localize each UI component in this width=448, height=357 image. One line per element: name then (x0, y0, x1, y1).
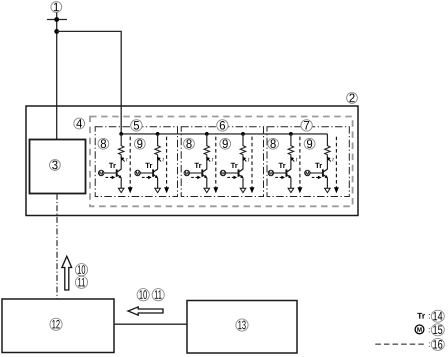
label 11 (152, 289, 164, 301)
legend motor symbol (415, 325, 424, 334)
label 10 (137, 289, 149, 301)
flow arrow (dashed) ch2 (166, 137, 168, 189)
wire resistor to transistor ch2 (157, 156, 159, 170)
base signal dashed arrow ch1 (106, 176, 113, 178)
label Tr ch2 (145, 163, 152, 168)
emitter wire ch3 (206, 178, 208, 188)
wire resistor to transistor ch4 (242, 156, 244, 170)
driver stage box 6 (dash-dot) (181, 127, 263, 197)
wire resistor to transistor ch1 (120, 156, 122, 170)
wire rail to resistor ch6 (326, 134, 328, 146)
unit U3 block (30, 140, 86, 194)
base wire ch4 (226, 172, 239, 174)
current arrow ch1 (122, 159, 124, 162)
label 8 ch3 (184, 138, 195, 149)
base signal dashed arrow ch2 (142, 176, 149, 178)
resistor R1 (119, 146, 124, 156)
transistor Q4 body (238, 169, 240, 176)
junction dot ch1 (119, 132, 123, 136)
resistor R4 (240, 146, 245, 156)
current arrow ch6 (329, 159, 331, 162)
current arrow ch3 (208, 159, 210, 162)
flow arrow (dashed) ch4 (251, 137, 253, 189)
label 11 (75, 276, 87, 288)
base signal dashed arrow ch3 (191, 176, 198, 178)
base wire ch3 (190, 172, 203, 174)
group box 4 (dashed) (90, 117, 353, 207)
terminal tick at node 1 (47, 19, 67, 21)
label 3 (50, 160, 61, 171)
transistor Q3 body (201, 169, 203, 176)
wire rail to resistor ch2 (157, 134, 159, 146)
emitter wire ch6 (326, 178, 328, 188)
label 9 ch2 (134, 138, 145, 149)
label 12 (50, 318, 62, 330)
label 13 (236, 319, 248, 331)
node 1 label (51, 2, 62, 13)
junction dot ch3 (205, 132, 209, 136)
wire rail to resistor ch5 (290, 134, 292, 146)
base signal dashed arrow ch4 (227, 176, 234, 178)
transistor Q6 body (322, 169, 324, 176)
motor M1 (99, 170, 104, 175)
junction dot ch2 (156, 132, 160, 136)
wire resistor to transistor ch3 (206, 156, 208, 170)
label 9 ch4 (220, 138, 231, 149)
motor M4 (220, 170, 225, 175)
signal arrow up (outline) (62, 256, 72, 290)
ground ch1 (118, 188, 124, 192)
base wire ch6 (310, 172, 323, 174)
junction dot (54, 29, 59, 34)
label Tr ch1 (109, 163, 116, 168)
label 14 (431, 310, 444, 322)
label 4 (74, 118, 85, 129)
resistor R2 (155, 146, 160, 156)
label 15 (431, 324, 444, 336)
label Tr ch6 (315, 163, 322, 168)
label 2 (347, 93, 358, 104)
unit U2 outer box (26, 106, 358, 216)
junction dot ch5 (289, 132, 293, 136)
transistor Q5 body (285, 169, 287, 176)
legend dashed wire (375, 343, 426, 345)
junction dot (54, 17, 59, 22)
unit U12 block (2, 299, 114, 353)
emitter wire ch4 (242, 178, 244, 188)
label 5 (131, 120, 142, 131)
motor M2 (135, 170, 140, 175)
label 8 ch1 (98, 138, 109, 149)
flow arrow (dashed) ch5 (299, 137, 301, 189)
ground ch6 (325, 188, 331, 192)
resistor R6 (325, 146, 330, 156)
label 6 (217, 120, 228, 131)
label Tr ch3 (195, 163, 202, 168)
wire (dash-dot) from unit 3 to unit 12 (56, 194, 58, 299)
base wire ch2 (140, 172, 153, 174)
wire from junction to driver rail (57, 31, 122, 133)
ground ch4 (240, 188, 246, 192)
transistor Q1 body (116, 169, 118, 176)
wire resistor to transistor ch6 (326, 156, 328, 170)
current arrow ch5 (292, 159, 294, 162)
wire U12 to U13 (114, 323, 187, 325)
emitter wire ch1 (120, 178, 122, 188)
wire from node 1 down to unit 3 (56, 12, 58, 139)
current arrow ch2 (159, 159, 161, 162)
base wire ch1 (104, 172, 117, 174)
ground ch2 (155, 188, 161, 192)
driver stage box 7 (dash-dot) (267, 127, 349, 197)
current arrow ch4 (244, 159, 246, 162)
wire resistor to transistor ch5 (290, 156, 292, 170)
base signal dashed arrow ch5 (275, 176, 282, 178)
label Tr ch5 (279, 163, 286, 168)
motor M5 (268, 170, 273, 175)
label 7 (301, 120, 312, 131)
ground ch5 (288, 188, 294, 192)
signal arrow left (outline) (128, 307, 163, 315)
resistor R5 (288, 146, 293, 156)
motor M6 (305, 170, 310, 175)
emitter wire ch5 (290, 178, 292, 188)
label 16 (431, 338, 444, 350)
driver stage box 5 (dash-dot) (95, 127, 177, 197)
supply rail (121, 133, 327, 135)
wire rail to resistor ch3 (206, 134, 208, 146)
transistor Q2 body (152, 169, 154, 176)
wire rail to resistor ch4 (242, 134, 244, 146)
base wire ch5 (274, 172, 287, 174)
flow arrow (dashed) ch3 (215, 137, 217, 189)
flow arrow (dashed) ch6 (335, 137, 337, 189)
wire rail to resistor ch1 (120, 134, 122, 146)
unit U13 block (187, 301, 297, 354)
motor M3 (184, 170, 189, 175)
label Tr ch4 (231, 163, 238, 168)
emitter wire ch2 (157, 178, 159, 188)
label 9 ch6 (304, 138, 315, 149)
ground ch3 (204, 188, 210, 192)
legend Tr (417, 313, 425, 319)
label 10 (75, 264, 87, 276)
base signal dashed arrow ch6 (312, 176, 319, 178)
label 8 ch5 (268, 138, 279, 149)
resistor R3 (204, 146, 209, 156)
flow arrow (dashed) ch1 (129, 137, 131, 189)
junction dot ch4 (241, 132, 245, 136)
